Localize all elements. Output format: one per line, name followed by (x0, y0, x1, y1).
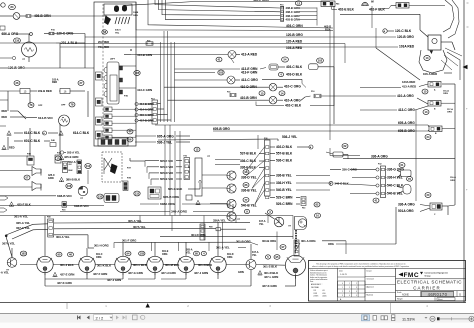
svg-text:608A ORG: 608A ORG (160, 202, 176, 206)
svg-text:X: X (130, 48, 132, 52)
svg-text:LEFT: LEFT (110, 59, 116, 61)
svg-text:GRN: GRN (238, 270, 244, 274)
svg-text:413-F GRN: 413-F GRN (241, 70, 258, 74)
svg-text:S: S (459, 292, 461, 296)
svg-text:403-C BLK: 403-C BLK (286, 65, 303, 69)
svg-text:301-L BLK: 301-L BLK (133, 263, 147, 267)
svg-text:413-C ORG: 413-C ORG (398, 108, 415, 112)
svg-text:413-A RED: 413-A RED (241, 53, 258, 57)
svg-text:Approval: Approval (367, 285, 375, 288)
svg-text:427-G GRN: 427-G GRN (128, 271, 143, 275)
svg-text:425-E GRN: 425-E GRN (64, 155, 78, 159)
svg-text:402-E BLK: 402-E BLK (338, 7, 355, 11)
svg-text:120A RED: 120A RED (402, 80, 415, 84)
svg-text:608-B VIO: 608-B VIO (57, 194, 72, 198)
svg-text:DECIMAL: DECIMAL (311, 286, 319, 289)
svg-text:Frac: Frac (310, 280, 314, 283)
svg-text:301-B ORG: 301-B ORG (236, 240, 251, 244)
svg-text:4: 4 (349, 295, 350, 297)
svg-text:117-A: 117-A (447, 108, 453, 111)
svg-text:1-10-75: 1-10-75 (340, 274, 348, 276)
svg-text:Checked: Checked (367, 278, 374, 280)
svg-text:536-J YEL: 536-J YEL (282, 135, 297, 139)
svg-text:Sheet: Sheet (438, 298, 443, 301)
svg-text:605-C VIO: 605-C VIO (160, 165, 174, 169)
svg-text:3: 3 (356, 287, 357, 289)
svg-text:BLK: BLK (69, 170, 74, 172)
svg-text:402-F BLK: 402-F BLK (369, 7, 385, 11)
svg-text:RED: RED (2, 115, 8, 119)
svg-text:5: 5 (356, 295, 357, 297)
svg-text:102: 102 (318, 59, 323, 63)
svg-text:FMC: FMC (404, 272, 419, 279)
svg-text:336A YEL: 336A YEL (213, 218, 226, 222)
svg-text:601-C BLK: 601-C BLK (24, 139, 41, 143)
svg-text:413-C ORG: 413-C ORG (241, 78, 258, 82)
svg-text:425-F BLK: 425-F BLK (17, 203, 31, 207)
svg-text:605-D VIO: 605-D VIO (160, 171, 174, 175)
svg-text:ORG: ORG (450, 180, 455, 182)
svg-text:ANGULAR 1 °: ANGULAR 1 ° (311, 283, 323, 286)
svg-text:410-B ORN: 410-B ORN (240, 96, 257, 100)
svg-text:408-C GRN: 408-C GRN (253, 0, 269, 2)
svg-text:46R0170: 46R0170 (428, 292, 448, 297)
svg-text:103: 103 (219, 71, 224, 75)
svg-text:336-B YEL: 336-B YEL (276, 174, 292, 178)
svg-text:501A ORG: 501A ORG (398, 209, 414, 213)
svg-text:614-C BLK: 614-C BLK (73, 131, 90, 135)
svg-text:ORG: ORG (96, 256, 102, 259)
svg-text:614-C BLK: 614-C BLK (24, 131, 41, 135)
svg-text:105: 105 (135, 71, 140, 75)
svg-text:336-G ORG: 336-G ORG (342, 167, 357, 171)
svg-text:ELECTRICAL SCHEMATIC: ELECTRICAL SCHEMATIC (397, 279, 462, 284)
svg-text:GRN: GRN (48, 177, 54, 180)
svg-text:536-C BLK: 536-C BLK (276, 159, 293, 163)
svg-text:RED: RED (9, 146, 15, 150)
svg-text:427-H GRN: 427-H GRN (161, 271, 176, 275)
svg-text:427-K GRN: 427-K GRN (262, 284, 277, 288)
svg-text:120-C BLK: 120-C BLK (395, 29, 412, 33)
svg-text:-A YEL: -A YEL (0, 270, 9, 274)
svg-text:NONE: NONE (402, 294, 409, 297)
svg-text:113: 113 (86, 164, 91, 168)
svg-text:540-C BLK: 540-C BLK (387, 184, 404, 188)
svg-text:605-A ORG: 605-A ORG (157, 134, 174, 138)
svg-text:301-R BLK: 301-R BLK (264, 271, 278, 275)
svg-text:3: 3 (342, 295, 343, 297)
svg-text:OFF: OFF (61, 105, 66, 107)
svg-text:402-D BLK: 402-D BLK (276, 145, 293, 149)
svg-text:110: 110 (98, 195, 103, 199)
svg-text:Drawn: Drawn (367, 270, 372, 272)
svg-text:307-A YEL: 307-A YEL (16, 226, 30, 230)
svg-text:301-K BLK: 301-K BLK (97, 264, 111, 268)
svg-text:427-J GRN: 427-J GRN (194, 271, 208, 275)
svg-text:RED: RED (52, 81, 57, 84)
svg-text:ORG: ORG (443, 93, 448, 95)
svg-text:336-D YEL: 336-D YEL (241, 176, 257, 180)
svg-text:2: 2 (356, 283, 357, 285)
svg-text:614-B VIO: 614-B VIO (38, 116, 53, 120)
svg-text:305-A YEL: 305-A YEL (16, 221, 30, 225)
svg-text:103-A RED: 103-A RED (286, 46, 303, 50)
svg-text:ORG: ORG (162, 253, 168, 256)
svg-text:4: 4 (356, 291, 357, 293)
svg-text:529-C BRN: 529-C BRN (276, 196, 293, 200)
svg-text:2 / 2: 2 / 2 (96, 316, 105, 321)
svg-text:115-A: 115-A (443, 90, 449, 93)
svg-text:403-B GRN: 403-B GRN (286, 18, 300, 22)
svg-text:307A YEL: 307A YEL (133, 225, 146, 229)
svg-text:.0005: .0005 (322, 296, 327, 298)
svg-text:1: 1 (342, 287, 343, 289)
svg-text:YEL: YEL (252, 254, 257, 257)
svg-text:120-B ORG: 120-B ORG (8, 66, 25, 70)
svg-text:Scale: Scale (397, 292, 402, 294)
svg-text:2: 2 (349, 287, 350, 289)
svg-text:301-N BLK: 301-N BLK (198, 263, 212, 267)
svg-text:380-B BLK: 380-B BLK (66, 178, 80, 182)
svg-text:410-A ORG: 410-A ORG (284, 99, 301, 103)
svg-text:301-H ORG: 301-H ORG (94, 243, 109, 247)
svg-text:336-G ORG: 336-G ORG (387, 168, 405, 172)
svg-text:F45: F45 (336, 3, 339, 6)
svg-text:336-C BLK: 336-C BLK (240, 159, 257, 163)
svg-text:540-B YEL: 540-B YEL (276, 188, 292, 192)
svg-text:116: 116 (15, 39, 20, 43)
svg-text:413-B GRN: 413-B GRN (137, 53, 152, 57)
svg-text:301-J BLK: 301-J BLK (60, 263, 74, 267)
svg-text:413-C GRN: 413-C GRN (137, 88, 152, 92)
svg-text:2: 2 (342, 291, 343, 293)
svg-text:120-B ORG: 120-B ORG (286, 33, 303, 37)
svg-text:P48: P48 (209, 226, 212, 229)
svg-text:ORG: ORG (328, 242, 334, 246)
svg-text:103A RED: 103A RED (399, 45, 415, 49)
svg-text:.XXXX: .XXXX (313, 296, 319, 298)
svg-text:P20: P20 (62, 209, 65, 211)
svg-text:340-A ORG: 340-A ORG (171, 209, 188, 213)
svg-text:536-V: 536-V (115, 30, 121, 32)
svg-text:540-B YEL: 540-B YEL (241, 203, 257, 207)
svg-text:552-A YEL: 552-A YEL (67, 151, 80, 155)
svg-text:.010: .010 (322, 293, 326, 295)
svg-text:BLK: BLK (325, 28, 330, 32)
svg-text:410-C ORG: 410-C ORG (284, 85, 301, 89)
svg-text:11.53%: 11.53% (402, 317, 415, 322)
svg-text:Material: Material (367, 293, 374, 296)
svg-text:105: 105 (21, 252, 26, 256)
svg-text:413-A RED: 413-A RED (402, 84, 416, 88)
svg-text:605-A ORG: 605-A ORG (398, 121, 415, 125)
svg-text:427-E GRN: 427-E GRN (60, 273, 74, 277)
svg-text:120-B ORG: 120-B ORG (397, 35, 414, 39)
svg-text:/M: /M (371, 1, 374, 4)
svg-text:3: 3 (349, 291, 350, 293)
svg-text:301-F ORG: 301-F ORG (122, 239, 136, 243)
svg-text:YEL: YEL (186, 251, 191, 254)
svg-text:others in whole or in part of: others in whole or in part of design and… (312, 265, 410, 268)
svg-text:Group: Group (425, 275, 432, 277)
svg-text:109-B RED: 109-B RED (38, 89, 52, 93)
svg-text:F53: F53 (302, 208, 305, 210)
svg-text:0: 0 (342, 283, 343, 285)
svg-text:103: 103 (140, 252, 145, 256)
svg-text:This drawing is the property o: This drawing is the property of FMC Corp… (316, 262, 406, 265)
svg-text:336-A ORG: 336-A ORG (371, 155, 388, 159)
svg-text:427-L GRN: 427-L GRN (264, 275, 278, 279)
svg-text:116-A: 116-A (450, 176, 456, 179)
svg-text:ORG: ORG (227, 256, 233, 259)
svg-text:301-M BLK: 301-M BLK (165, 263, 179, 267)
svg-text:106-A RED: 106-A RED (423, 72, 437, 76)
svg-text:301-A YEL: 301-A YEL (14, 215, 28, 219)
svg-text:Weight: Weight (397, 298, 403, 301)
svg-text:403-C GRN: 403-C GRN (286, 24, 303, 28)
svg-text:ORG: ORG (133, 15, 138, 17)
svg-text:336-H YEL: 336-H YEL (276, 181, 292, 185)
svg-text:YEL: YEL (259, 223, 264, 226)
svg-text:605-E VIO: 605-E VIO (160, 177, 174, 181)
svg-text:605-B ORG: 605-B ORG (163, 195, 180, 199)
svg-text:410-A ORG: 410-A ORG (397, 94, 414, 98)
svg-text:1: 1 (349, 283, 350, 285)
svg-text:336-A ORG: 336-A ORG (398, 203, 415, 207)
svg-text:CARRIER: CARRIER (413, 286, 440, 291)
svg-text:408-C GRN: 408-C GRN (286, 10, 300, 14)
svg-text:427-F GRN: 427-F GRN (93, 272, 107, 276)
svg-text:301-A ORG: 301-A ORG (301, 239, 316, 243)
svg-text:RED: RED (2, 109, 8, 113)
svg-text:120-A RED: 120-A RED (286, 39, 303, 43)
svg-text:F36: F36 (184, 155, 187, 157)
svg-text:408-B GRN: 408-B GRN (286, 6, 300, 10)
svg-text:427-K GRN: 427-K GRN (57, 281, 72, 285)
svg-text:OFF: OFF (38, 105, 43, 107)
svg-text:Construction Equipment: Construction Equipment (425, 272, 449, 275)
svg-text:301-S BLK: 301-S BLK (263, 264, 277, 268)
svg-text:540-C BLK: 540-C BLK (335, 181, 349, 185)
svg-text:336-B YEL: 336-B YEL (241, 189, 257, 193)
svg-text:557-B BLK: 557-B BLK (276, 152, 293, 156)
svg-text:303-A YEL: 303-A YEL (56, 235, 70, 239)
svg-text:Date: Date (339, 269, 343, 272)
svg-text:605-B ORG: 605-B ORG (213, 127, 230, 131)
svg-text:408-A GRN: 408-A GRN (286, 14, 300, 18)
svg-text:304-B ORG: 304-B ORG (262, 239, 276, 243)
svg-text:115: 115 (135, 192, 140, 196)
svg-text:605-F VIO: 605-F VIO (160, 159, 174, 163)
svg-text:427-J GRN: 427-J GRN (107, 278, 121, 282)
svg-text:336-H YEL: 336-H YEL (387, 176, 403, 180)
svg-text:402-C BLK: 402-C BLK (285, 104, 302, 108)
svg-text:529-C BRN: 529-C BRN (276, 202, 293, 206)
svg-text:403-D BLK: 403-D BLK (286, 73, 303, 77)
svg-text:ORG: ORG (447, 112, 452, 114)
svg-text:605-B ORG: 605-B ORG (398, 129, 415, 133)
svg-text:537-B BLK: 537-B BLK (240, 152, 257, 156)
svg-text:304-D ORG: 304-D ORG (191, 233, 206, 237)
svg-text:.03: .03 (322, 290, 325, 292)
svg-text:106: 106 (67, 184, 72, 188)
svg-text:YEL: YEL (115, 33, 120, 35)
